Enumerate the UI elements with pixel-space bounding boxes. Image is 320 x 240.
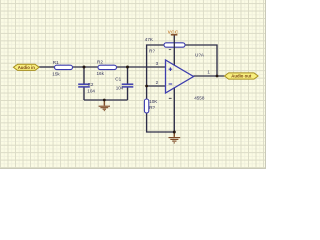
svg-text:15k: 15k <box>52 71 60 76</box>
svg-text:104: 104 <box>116 86 124 91</box>
svg-text:C1: C1 <box>115 76 121 81</box>
svg-text:2: 2 <box>156 80 159 85</box>
svg-text:47K: 47K <box>145 37 154 42</box>
svg-text:R?: R? <box>149 48 155 53</box>
svg-text:16k: 16k <box>97 71 105 76</box>
svg-text:Audio in: Audio in <box>18 65 36 70</box>
svg-text:Audio out: Audio out <box>231 74 252 79</box>
svg-text:104: 104 <box>87 88 95 93</box>
svg-text:R1: R1 <box>53 60 59 65</box>
svg-text:VCC: VCC <box>168 30 179 36</box>
svg-text:4558: 4558 <box>194 95 205 100</box>
svg-text:R?: R? <box>149 105 155 110</box>
svg-text:R2: R2 <box>97 59 103 64</box>
svg-text:C2: C2 <box>88 82 94 87</box>
svg-text:10K: 10K <box>149 99 158 104</box>
svg-text:1: 1 <box>207 70 210 75</box>
svg-text:U?A: U?A <box>195 53 205 58</box>
svg-text:3: 3 <box>156 61 159 66</box>
